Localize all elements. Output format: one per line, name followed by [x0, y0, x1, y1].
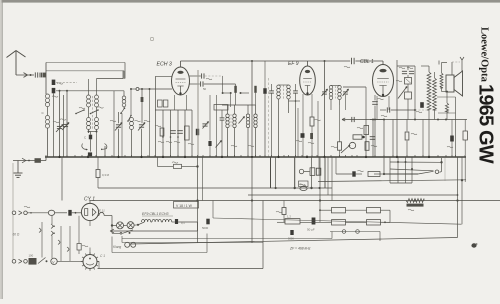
- terminal circle y89: [136, 88, 139, 91]
- potentiometer mid rects: [310, 168, 315, 176]
- coil IFT3a: [329, 86, 333, 90]
- wire CBL1 pins: [376, 96, 378, 120]
- coil IFT2b: [287, 85, 291, 89]
- svg-text:1965 GW: 1965 GW: [475, 84, 497, 164]
- paper speck circle: [150, 37, 153, 40]
- capacitor dark x211: [208, 141, 211, 146]
- wire x70 vert: [69, 226, 71, 261]
- svg-text:ZF = 468 kHz: ZF = 468 kHz: [289, 247, 311, 251]
- wire bus y119.5: [370, 119, 467, 121]
- switch SW1d: [121, 108, 125, 113]
- capacitor CBL1 b: [409, 70, 414, 72]
- wire x332 vert: [331, 232, 333, 239]
- wire x197 heater: [197, 222, 199, 231]
- coil form foot right: [103, 144, 107, 150]
- wire plug column: [12, 163, 14, 211]
- squiggle labels ECH3: [158, 141, 164, 142]
- wire y113: [438, 112, 456, 114]
- wire bottom long y243: [130, 238, 458, 245]
- choke ground: [35, 158, 41, 163]
- voltage box small: [299, 181, 309, 187]
- wire vertical x114: [113, 91, 115, 157]
- wire x122 drop: [121, 113, 123, 157]
- wire x213 vert: [212, 201, 214, 219]
- resistor Rdiv r1b: [367, 208, 381, 213]
- wire y66 top: [397, 65, 415, 67]
- magic eye socket ticks: [97, 261, 99, 263]
- wire IFT top bus: [222, 104, 256, 106]
- fuse mains: [48, 210, 54, 215]
- svg-text:EF9 CBL1 ECH3: EF9 CBL1 ECH3: [142, 212, 169, 216]
- transformer T1 primary: [427, 72, 431, 110]
- wire ECH3 grid1 y76: [190, 75, 201, 77]
- svg-text:C: C: [84, 136, 86, 140]
- capacitor dark y174: [352, 171, 355, 176]
- variable arrow IFT3 L: [322, 89, 328, 96]
- capacitor dark EF9 b: [310, 133, 313, 139]
- wire x465 lower: [464, 157, 466, 182]
- resistor small x79: [77, 244, 81, 251]
- capacitor IFT2 trim: [269, 90, 274, 92]
- switch brackets mid: [51, 224, 53, 228]
- wire x393 vert: [392, 120, 394, 158]
- coil L5 ant band: [122, 96, 126, 100]
- page left scan border: [0, 0, 2, 299]
- switch SW1e: [128, 116, 131, 122]
- wire x397 vert: [396, 60, 398, 157]
- heater winding EF9: [142, 219, 151, 222]
- wire cluster verticals IF: [270, 157, 272, 188]
- osc wire y93: [223, 92, 231, 94]
- resistor Rdiv r2c: [367, 220, 381, 225]
- wire vertical x46: [45, 63, 47, 95]
- choke ant: [40, 73, 46, 78]
- wire x320 vert: [319, 201, 321, 223]
- resistor mains dropper: [29, 258, 37, 265]
- resistor humbucking: [445, 103, 448, 112]
- svg-text:5000: 5000: [202, 226, 209, 230]
- svg-text:E 11: E 11: [99, 209, 105, 213]
- heater winding ECH3: [163, 219, 172, 222]
- resistor EF9 screen: [310, 117, 314, 126]
- tube V1 CY1 rectifier: [81, 203, 98, 220]
- svg-text:50: 50: [203, 87, 207, 91]
- switch band SW1c: [91, 110, 99, 114]
- wire cluster verticals mid: [294, 157, 296, 188]
- variable capacitor C2a: [116, 124, 121, 126]
- wire mains upper: [27, 212, 48, 214]
- wire vertical x324: [324, 61, 326, 157]
- wire x430 vert: [428, 110, 430, 157]
- resistor Rdiv r2a: [285, 219, 300, 224]
- tube magic eye C1: [83, 255, 97, 269]
- wire ECH3 pin bus: [155, 109, 192, 111]
- pot pill mid: [300, 186, 307, 190]
- coil L4 upper: [95, 95, 99, 99]
- capacitor dark x235: [234, 86, 237, 93]
- capacitor heater dark: [175, 219, 178, 224]
- potentiometer mid ellipse: [299, 169, 303, 173]
- wire antenna lead-in: [16, 74, 34, 76]
- choke field coil: [406, 199, 424, 203]
- wire EF9 pins: [302, 94, 304, 157]
- wire IFT1 stems: [227, 105, 229, 114]
- tube U2 EF9: [300, 66, 316, 95]
- variable capacitor tuning C1a: [57, 125, 62, 127]
- voltage box U18: [174, 202, 199, 209]
- wire x423 vert: [422, 120, 424, 158]
- variable capacitor tuning C1b: [63, 123, 68, 125]
- page top scan border: [0, 0, 500, 3]
- capacitor dark right: [450, 136, 454, 142]
- wire y238: [122, 238, 332, 240]
- capacitor grid2: [200, 81, 202, 86]
- capacitor coupling top: [351, 58, 353, 64]
- wire vertical x67: [66, 91, 68, 157]
- wire vertical x210: [209, 95, 211, 141]
- resistor right1: [405, 132, 409, 140]
- wire y183: [390, 182, 412, 184]
- wire bus top-left lower: [46, 70, 124, 72]
- speaker LS horn: [454, 71, 463, 96]
- wire L1: [47, 107, 49, 115]
- resistor R2 screen: [185, 126, 190, 140]
- coil L3 lower: [87, 118, 91, 122]
- coil form foot left: [82, 144, 88, 150]
- resistor R mid x98: [96, 170, 100, 178]
- capacitor ant filter 1: [52, 80, 56, 85]
- svg-text:1,2: 1,2: [287, 214, 291, 218]
- wire IFT2 stems: [279, 84, 289, 86]
- wire top CBL1: [355, 60, 383, 62]
- resistor det load: [364, 126, 369, 135]
- capacitor y110 feed: [386, 107, 388, 112]
- resistor 7k loop: [157, 157, 159, 167]
- wire x62 vert: [61, 157, 63, 201]
- wire CY1 to lamps: [111, 216, 113, 226]
- capacitor osc series dark: [88, 152, 92, 156]
- resistor R1 ECH3 cathode: [160, 128, 164, 136]
- wire right top lines: [390, 161, 442, 163]
- arrowhead y119: [342, 118, 345, 120]
- resistor Rdiv left: [282, 208, 286, 215]
- capacitor dark x142: [141, 97, 144, 102]
- coil IFT2a: [277, 85, 281, 89]
- svg-text:Loewe/Opta: Loewe/Opta: [479, 27, 490, 83]
- resistor det2: [353, 135, 362, 139]
- magic eye inner: [86, 264, 94, 266]
- wire vertical x131: [130, 89, 132, 116]
- wire x404 vert: [407, 66, 409, 70]
- wire x263 vert: [262, 201, 264, 269]
- capacitor ant filter 2: [52, 88, 56, 93]
- wire IFT1cd stems: [247, 105, 249, 114]
- wire det verticals: [365, 110, 367, 157]
- capacitor det: [351, 117, 353, 122]
- bus B+ y200.5: [90, 200, 500, 202]
- speaker terminals: [442, 62, 448, 64]
- wire vertical x149.5: [149, 89, 151, 157]
- variable trimmer osc: [203, 122, 209, 129]
- wire vertical x105: [104, 146, 106, 157]
- wire y171 pigtail: [435, 170, 439, 174]
- antenna: [15, 51, 17, 75]
- tube U1 ECH3: [172, 67, 190, 95]
- wire osc join: [89, 131, 97, 133]
- wire right verticals: [389, 157, 391, 183]
- speaker LS frame: [446, 75, 454, 92]
- wire vertical x178: [177, 110, 179, 157]
- wire IFT3 frame: [331, 85, 340, 87]
- svg-text:C 1: C 1: [100, 254, 105, 258]
- coil L6: [130, 118, 134, 122]
- wire x457 vert: [457, 157, 459, 238]
- variable arrow IFT3 R: [343, 89, 349, 96]
- shield dash IFT3: [345, 110, 347, 130]
- coil IFT1b: [233, 114, 236, 117]
- capacitor IFT1 trim L: [220, 117, 225, 119]
- resistor Rdiv r2b: [332, 220, 346, 225]
- wire bus y188: [98, 187, 332, 189]
- ink spot artifact: [471, 243, 476, 247]
- wire x52 vert: [51, 215, 53, 224]
- svg-text:ECH 3: ECH 3: [157, 62, 172, 68]
- capacitor CBL1 a: [402, 70, 407, 72]
- coil L4 lower: [95, 118, 99, 122]
- capacitor dark EF9 k: [301, 133, 305, 138]
- wire lamp pair line: [330, 231, 380, 233]
- capacitor dark x255: [254, 86, 256, 93]
- speaker field coil: [440, 73, 443, 88]
- transformer T1 secondary: [433, 78, 437, 110]
- wire x252 lower: [251, 157, 253, 243]
- potentiometer vol: [349, 142, 355, 148]
- wire y174 heavy: [384, 173, 418, 175]
- wire dash y82: [56, 81, 77, 83]
- wire det out: [343, 86, 366, 88]
- wire IFT2 core: [283, 85, 285, 99]
- ground bus main: [45, 156, 466, 158]
- wire L3 stem: [88, 107, 90, 117]
- wire speaker right: [455, 97, 457, 157]
- antenna plug connector: [24, 73, 28, 75]
- wire eye right: [97, 261, 99, 263]
- coil IFT1a: [226, 114, 229, 117]
- wire core dash L3L4: [92, 96, 94, 130]
- wire y84 cont: [204, 83, 236, 85]
- wire T1 top: [428, 66, 430, 72]
- wire x390 vert: [389, 210, 391, 222]
- wire x42 vert: [41, 222, 43, 258]
- wire ECH3 pin drops: [174, 95, 176, 110]
- wire vertical x198 lower: [197, 157, 199, 243]
- heater winding CY1: [99, 212, 104, 215]
- wire vertical x124-drop: [123, 71, 125, 79]
- shield dash IFT2: [268, 78, 270, 157]
- wire heater return: [110, 230, 198, 232]
- wire fuse to cap: [55, 212, 67, 214]
- wire ECH3 grid2 y84: [190, 83, 200, 85]
- coil L3 upper: [87, 95, 91, 99]
- pin boxes ECH3: [158, 100, 163, 107]
- terminal mains upper: [12, 211, 16, 215]
- wire vertical x53.5: [53, 93, 55, 157]
- wire vertical x59: [59, 91, 61, 157]
- capacitor det2: [370, 136, 376, 138]
- wire bus y195: [248, 194, 457, 196]
- wire vertical AVC x252: [251, 61, 253, 157]
- capacitor padder dark: [89, 135, 92, 140]
- coil tone 1: [125, 242, 130, 247]
- wire y242: [122, 242, 263, 244]
- wire heater to x197: [172, 221, 175, 223]
- wire vertical x155: [155, 76, 157, 157]
- wire x112 vert: [111, 237, 113, 253]
- value squiggles front-end: [53, 121, 59, 122]
- capacitor dark x422: [420, 102, 424, 108]
- wire y119 det: [342, 119, 384, 121]
- wire y174 to pigtail: [418, 171, 434, 174]
- wire speaker feed: [434, 72, 436, 78]
- wire vertical x216.5: [216, 95, 218, 157]
- osc box: [214, 105, 228, 111]
- resistor CBL1 grid: [405, 78, 412, 85]
- capacitor grid1: [201, 73, 203, 78]
- ground symbol: [17, 161, 19, 174]
- capacitor C ECH3 k: [170, 130, 176, 132]
- wire y252: [112, 252, 207, 254]
- wire ground lead: [13, 160, 46, 162]
- wire ECH3 top to AVC rail: [180, 61, 182, 67]
- coil L1 antenna upper: [45, 94, 49, 98]
- svg-text:0,1: 0,1: [181, 221, 185, 225]
- svg-text:EF 9: EF 9: [288, 61, 299, 67]
- resistor right edge: [463, 131, 467, 140]
- wire cap to CY1: [72, 212, 82, 214]
- dial lamp 1: [117, 222, 124, 229]
- svg-text:Klang: Klang: [113, 245, 121, 249]
- wire bus top-left upper: [46, 62, 125, 64]
- squiggle IFT1 labels: [231, 145, 237, 146]
- wire osc top right: [97, 78, 124, 80]
- capacitor det top: [372, 101, 378, 103]
- resistor mid right: [368, 172, 380, 177]
- wire x122 vert: [121, 236, 123, 243]
- junction dots y137: [162, 136, 164, 138]
- wire vertical x163: [162, 110, 164, 157]
- wire x415 vert: [414, 66, 416, 120]
- potentiometer tone: [405, 92, 412, 99]
- wire y222: [277, 221, 285, 223]
- switch band SW1a: [76, 110, 84, 114]
- coil IFT3b: [338, 86, 342, 90]
- svg-text:60 Ω: 60 Ω: [13, 233, 20, 237]
- svg-text:100: 100: [29, 254, 34, 258]
- coil L1 antenna lower: [45, 116, 49, 120]
- variable arrow IFT1: [239, 117, 245, 124]
- wire vertical x185: [184, 110, 186, 157]
- capacitor ant series: [34, 72, 36, 77]
- capacitor dark 50uF: [312, 218, 316, 225]
- variable capacitor C2b: [139, 124, 144, 126]
- resistor IFT3 bleed: [338, 142, 342, 150]
- fuse V: [51, 258, 57, 264]
- bus dots: [58, 156, 60, 158]
- wire bus y268.5: [98, 268, 264, 270]
- wire ant to node: [45, 74, 47, 76]
- ground plug connector: [22, 158, 26, 160]
- coil IFT1d: [254, 114, 257, 117]
- wire y210: [320, 209, 332, 211]
- shield line gray: [197, 70, 199, 157]
- svg-text:0,3 M: 0,3 M: [102, 173, 110, 177]
- volume pot arrow: [341, 145, 350, 153]
- junction grid RF9: [295, 100, 297, 102]
- capacitor dark 5000b: [290, 230, 293, 235]
- capacitor dark screen: [196, 129, 199, 136]
- svg-text:V 18 / 1 W: V 18 / 1 W: [176, 204, 193, 208]
- switch heater bypass: [111, 226, 113, 234]
- svg-text:CBL 1: CBL 1: [360, 59, 374, 65]
- switch mains: [38, 258, 46, 264]
- bus junction ticks: [45, 155, 47, 157]
- coil tone 2: [131, 242, 136, 247]
- terminal mains lower: [12, 260, 16, 264]
- wire y76 cont: [205, 75, 223, 77]
- wire L4 stem: [96, 107, 98, 117]
- resistor Rdiv r1a: [332, 208, 346, 213]
- wire bus y182: [318, 180, 466, 182]
- dial lamp 2: [127, 222, 134, 229]
- wire vertical x63.5: [63, 95, 65, 157]
- capacitor dark mains: [68, 210, 71, 216]
- wire x61 vert: [60, 226, 62, 261]
- wire x373 vert: [372, 120, 374, 158]
- svg-text:50 µF: 50 µF: [307, 228, 315, 232]
- wire x284 vert: [283, 201, 285, 208]
- wire EF9 top: [307, 61, 309, 66]
- capacitor C ECH3 k2: [177, 130, 183, 132]
- tube U3 CBL1: [373, 65, 394, 97]
- wire to eye: [57, 260, 82, 262]
- wire grid line y89: [131, 88, 136, 90]
- wire heater bumps link: [142, 221, 145, 223]
- bus dots y200: [196, 199, 198, 201]
- wire vertical x170.5: [170, 110, 172, 157]
- capacitor dark x200: [206, 219, 209, 225]
- heater winding CBL1: [152, 219, 161, 222]
- svg-text:CY 1: CY 1: [84, 197, 95, 203]
- svg-text:5000: 5000: [288, 237, 294, 241]
- wire vertical x192: [191, 110, 193, 157]
- coil IFT1c: [246, 114, 249, 117]
- wire y91: [56, 90, 124, 92]
- wire CBL1 top stub: [382, 61, 384, 65]
- capacitor dark mid x265: [263, 88, 266, 94]
- capacitor IFT2 trim R: [293, 90, 298, 92]
- wire x207 vert: [206, 234, 208, 253]
